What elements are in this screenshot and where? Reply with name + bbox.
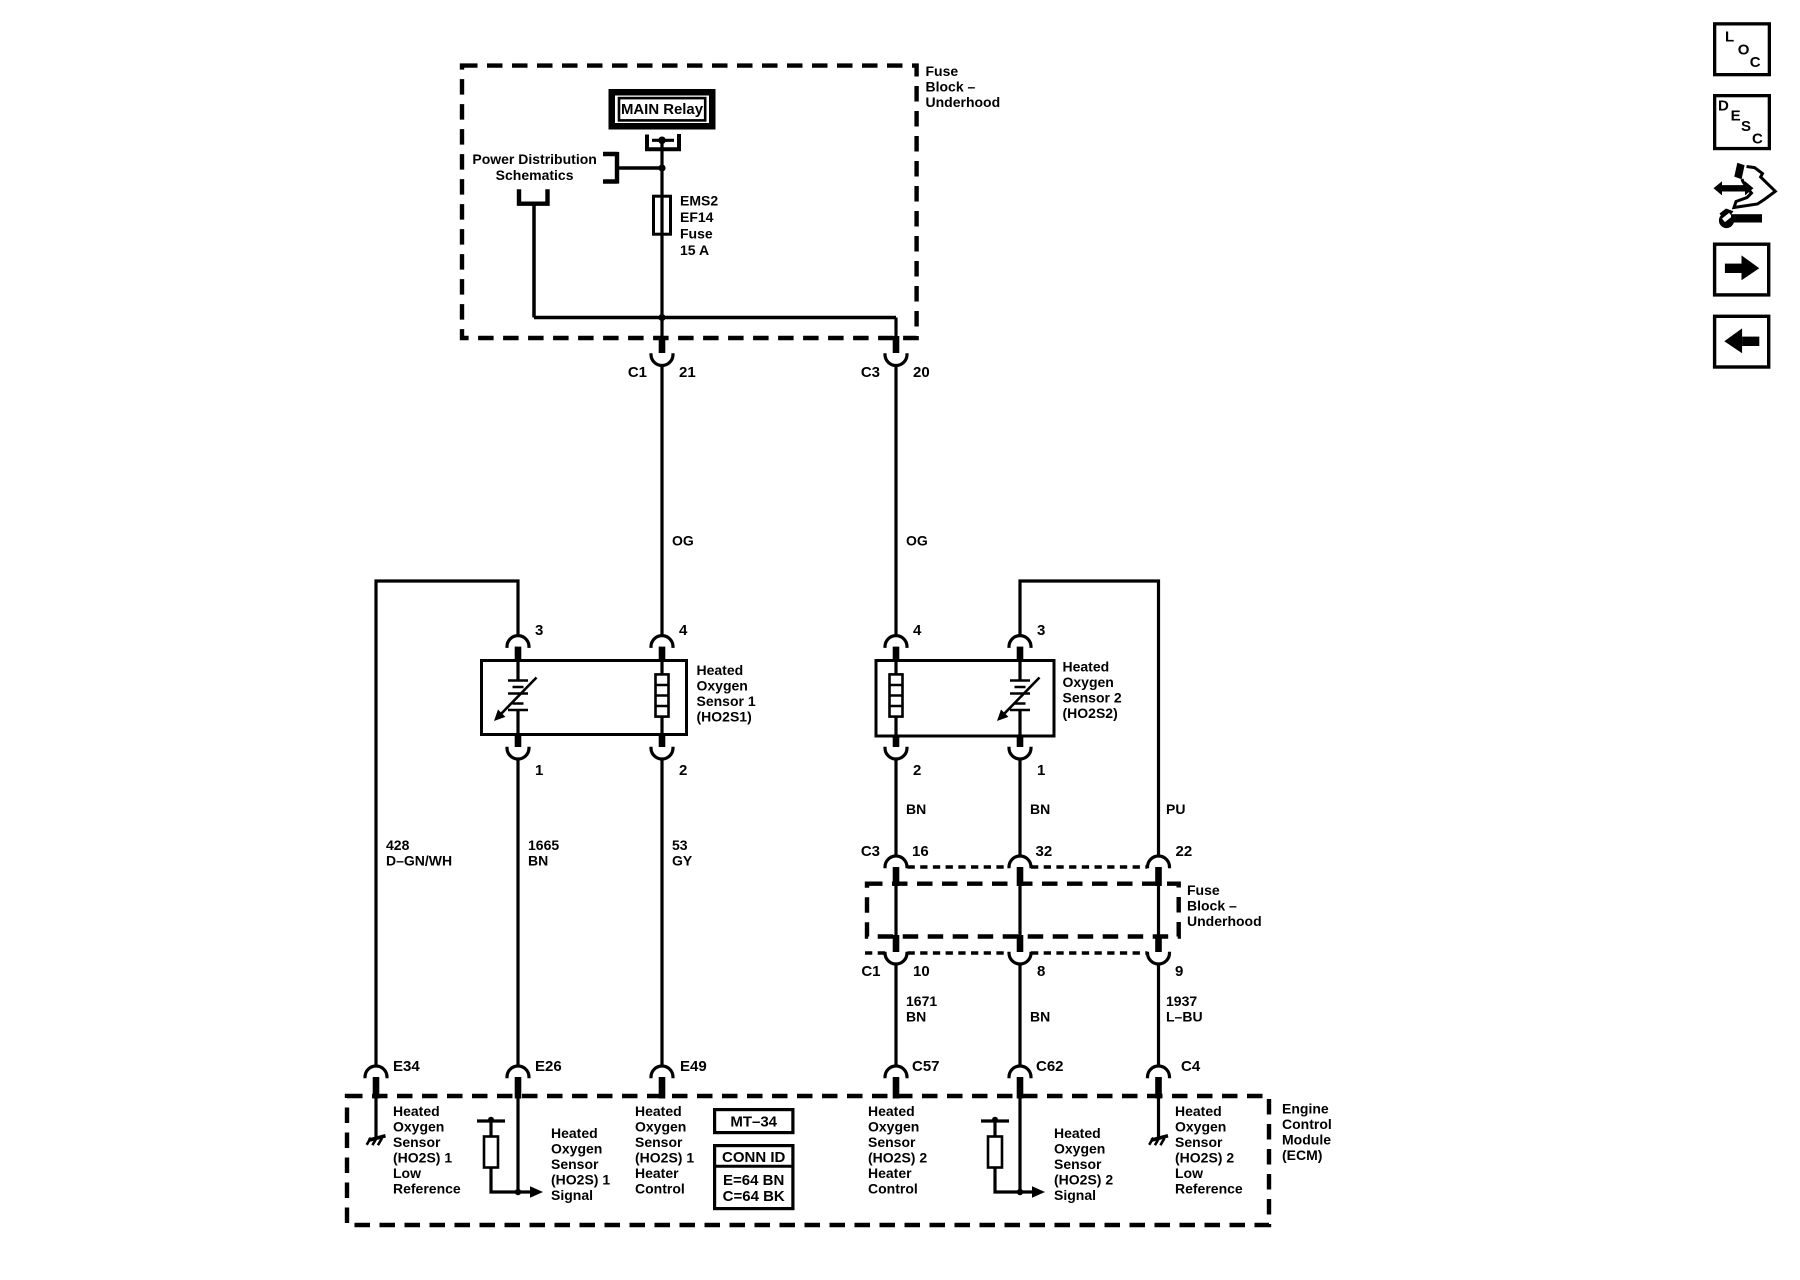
wire: 16 to 10 through fuse block [894,886,897,936]
svg-text:2: 2 [913,762,921,779]
wire: 32 to 8 through fuse block [1018,886,1021,936]
component box: Heated Oxygen Sensor 2 [876,661,1054,737]
wire: bus corner down to C3 20 [894,318,897,337]
svg-text:Sensor: Sensor [635,1134,683,1150]
svg-text:Fuse: Fuse [1187,882,1220,898]
icon: DESC box [1715,96,1770,149]
wire: HO2S2 heater control down [894,759,897,857]
svg-text:C1: C1 [861,963,880,980]
svg-text:Schematics: Schematics [496,167,574,183]
svg-text:22: 22 [1176,843,1193,860]
svg-text:BN: BN [906,1009,926,1025]
svg-text:(HO2S1): (HO2S1) [697,708,752,724]
wire: C57 column [894,964,897,1066]
label: circuit 1671 BN [906,993,937,1025]
svg-text:O: O [1738,42,1750,59]
svg-text:E: E [1731,107,1741,124]
svg-text:C3: C3 [861,364,880,381]
svg-text:OG: OG [906,533,928,549]
svg-text:Signal: Signal [1054,1187,1096,1203]
connector ECM pin C4 [1148,1066,1170,1099]
label: Heated Oxygen Sensor (HO2S) 2 Signal [1054,1125,1113,1203]
svg-text:4: 4 [913,622,922,639]
resistor: HO2S2 signal pull-up with arrow [981,1117,1045,1198]
reference box: CONN ID E=64 BN C=64 BK [713,1146,795,1209]
svg-text:PU: PU [1166,801,1185,817]
connector ECM pin C57 [885,1066,907,1099]
label: EMS2 EF14 Fuse 15 A [680,193,718,259]
fuse block underhood (top) dashed box [462,66,917,338]
svg-text:Heated: Heated [697,662,744,678]
svg-text:C: C [1750,54,1761,71]
svg-text:E26: E26 [535,1058,562,1075]
svg-text:Oxygen: Oxygen [551,1141,602,1157]
bracket: PDS right bracket [603,152,662,184]
svg-text:Oxygen: Oxygen [635,1119,686,1135]
wire: E26 signal into ECM [516,1098,519,1192]
component box: Heated Oxygen Sensor 1 [482,661,687,735]
connector row C3: pin 16 [885,856,907,886]
label: Heated Oxygen Sensor (HO2S) 1 Low Reference [393,1103,461,1197]
svg-text:OG: OG [672,533,694,549]
connector: HO2S2 pin 2 [885,735,907,760]
wire: HO2S1 signal to E26 [516,759,519,1066]
svg-text:Module: Module [1282,1132,1331,1148]
svg-text:EF14: EF14 [680,209,714,225]
svg-text:(HO2S) 1: (HO2S) 1 [393,1150,452,1166]
label: Heated Oxygen Sensor 2 (HO2S2) [1063,659,1122,721]
connector row C3: pin 22 [1148,856,1170,886]
wire: C4 to ground [1157,1098,1160,1137]
wire: C62 column [1018,964,1021,1066]
svg-text:3: 3 [1037,622,1045,639]
svg-text:Oxygen: Oxygen [393,1119,444,1135]
label: Power Distribution Schematics [472,151,596,183]
label: Fuse Block - Underhood (top) [926,63,1001,110]
svg-text:1671: 1671 [906,993,937,1009]
svg-text:C4: C4 [1181,1058,1201,1075]
icon: forward arrow box [1715,244,1769,295]
svg-text:MAIN Relay: MAIN Relay [621,101,704,118]
HO2S2 heater element symbol [890,661,903,737]
engine control module (ECM) dashed box [347,1096,1269,1225]
connector ECM pin E49 [651,1066,673,1099]
svg-text:Block –: Block – [1187,898,1237,914]
svg-text:Oxygen: Oxygen [1054,1141,1105,1157]
svg-text:C1: C1 [628,364,647,381]
label: Heated Oxygen Sensor (HO2S) 2 Heater Control [868,1103,927,1197]
bracket: PDS lower bracket [517,189,550,204]
label: Fuse Block - Underhood (middle) [1187,882,1262,929]
svg-text:(HO2S) 2: (HO2S) 2 [1054,1172,1113,1188]
svg-text:Reference: Reference [393,1181,461,1197]
label: Heated Oxygen Sensor (HO2S) 2 Low Reference [1175,1103,1243,1197]
svg-text:(HO2S) 2: (HO2S) 2 [868,1150,927,1166]
reference box: MT-34 [715,1110,793,1133]
svg-text:53: 53 [672,837,688,853]
HO2S1 heater element symbol [656,661,669,735]
svg-text:1: 1 [535,762,543,779]
svg-text:Heated: Heated [393,1103,440,1119]
wire: HO2S2 signal down [1018,759,1021,857]
svg-text:Heated: Heated [1175,1103,1222,1119]
MAIN relay contact pins symbol [645,134,681,149]
connector: HO2S1 pin 1 [507,733,529,759]
connector C3 pin 20 [885,336,907,366]
svg-text:GY: GY [672,853,693,869]
connector row C1: pin 9 [1148,935,1170,964]
svg-text:Oxygen: Oxygen [697,678,748,694]
wire: HO2S1 pin 3 jog to E34 column [376,581,518,1066]
svg-text:Underhood: Underhood [1187,913,1262,929]
wire: HO2S1 heater control to E49 [660,759,663,1066]
svg-text:Heater: Heater [868,1165,912,1181]
svg-text:1: 1 [1037,762,1045,779]
svg-text:(HO2S) 1: (HO2S) 1 [551,1172,610,1188]
svg-text:E34: E34 [393,1058,420,1075]
svg-text:L: L [1725,29,1734,46]
label: circuit 1937 L-BU [1166,993,1203,1025]
svg-text:Control: Control [635,1181,685,1197]
connector row C1: pin 8 [1009,935,1031,964]
svg-text:1665: 1665 [528,837,559,853]
svg-text:E49: E49 [680,1058,707,1075]
svg-text:8: 8 [1037,963,1045,980]
HO2S1 sensing element symbol [494,661,537,735]
svg-text:(HO2S2): (HO2S2) [1063,705,1118,721]
svg-text:15 A: 15 A [680,242,709,258]
svg-text:Sensor: Sensor [868,1134,916,1150]
svg-text:(HO2S) 1: (HO2S) 1 [635,1150,694,1166]
connector ECM pin E34 [365,1066,387,1099]
svg-text:Sensor 2: Sensor 2 [1063,689,1122,705]
svg-text:Oxygen: Oxygen [1175,1119,1226,1135]
svg-text:32: 32 [1036,843,1053,860]
svg-text:1937: 1937 [1166,993,1197,1009]
svg-text:C: C [1752,130,1763,147]
icon: LOC box [1715,24,1770,75]
svg-text:Heated: Heated [551,1125,598,1141]
svg-text:Heated: Heated [1063,659,1110,675]
svg-text:D–GN/WH: D–GN/WH [386,853,452,869]
fuse block underhood (middle) dashed box [867,884,1179,937]
svg-text:Heated: Heated [868,1103,915,1119]
wire: E34 to ground [374,1098,377,1137]
svg-text:Sensor: Sensor [551,1156,599,1172]
svg-text:Low: Low [393,1165,421,1181]
label: circuit 428 D-GN/WH [386,837,452,869]
icon: repair instructions (arrows + wrench) [1714,163,1776,228]
svg-text:Control: Control [1282,1116,1332,1132]
svg-text:BN: BN [1030,1009,1050,1025]
svg-text:10: 10 [913,963,930,980]
svg-text:20: 20 [913,364,930,381]
label: circuit 1665 BN [528,837,559,869]
svg-text:2: 2 [679,762,687,779]
svg-text:21: 21 [679,364,696,381]
connector row C3: pin 32 [1009,856,1031,886]
svg-text:E=64 BN: E=64 BN [723,1172,784,1189]
svg-text:Heated: Heated [635,1103,682,1119]
node: bus junction [658,314,665,321]
wire: relay to tap junction [660,140,663,168]
wire: OG to HO2S1 pin 4 [660,366,663,637]
svg-text:Fuse: Fuse [680,226,713,242]
label: Heated Oxygen Sensor 1 (HO2S1) [697,662,756,724]
svg-text:Sensor: Sensor [1175,1134,1223,1150]
svg-text:428: 428 [386,837,410,853]
svg-text:(HO2S) 2: (HO2S) 2 [1175,1150,1234,1166]
connector: HO2S2 pin 4 [885,636,907,662]
connector row C1: pin 10 [885,935,907,964]
resistor: HO2S1 signal pull-up with arrow [477,1117,543,1198]
svg-text:CONN ID: CONN ID [722,1149,786,1166]
connector ECM pin E26 [507,1066,529,1099]
svg-text:Fuse: Fuse [926,63,959,79]
svg-text:Low: Low [1175,1165,1203,1181]
connector: HO2S1 pin 3 [507,636,529,662]
connector: HO2S2 pin 3 [1009,636,1031,662]
svg-text:Signal: Signal [551,1187,593,1203]
label: Engine Control Module (ECM) [1282,1101,1332,1164]
svg-text:EMS2: EMS2 [680,193,718,209]
connector face line C1 [865,951,1147,954]
icon: back arrow box [1715,316,1769,367]
connector: HO2S2 pin 1 [1009,735,1031,760]
svg-text:Control: Control [868,1181,918,1197]
svg-text:16: 16 [912,843,929,860]
svg-text:4: 4 [679,622,688,639]
label: Heated Oxygen Sensor (HO2S) 1 Heater Control [635,1103,694,1197]
svg-text:C3: C3 [861,843,880,860]
svg-text:Sensor: Sensor [393,1134,441,1150]
wire: C62 signal into ECM [1018,1098,1021,1192]
svg-text:Heater: Heater [635,1165,679,1181]
wire: PDS branch down [532,205,536,318]
svg-text:Sensor 1: Sensor 1 [697,693,756,709]
connector face line C3 [908,865,1148,868]
wire: HO2S2 pin 3 jog to PU column [1020,581,1159,857]
ground: HO2S1 low reference [367,1136,386,1145]
svg-text:Sensor: Sensor [1054,1156,1102,1172]
svg-text:BN: BN [1030,801,1050,817]
connector ECM pin C62 [1009,1066,1031,1099]
wire: tap junction through fuse to bus [660,168,663,318]
HO2S2 sensing element symbol [997,661,1040,737]
label: Heated Oxygen Sensor (HO2S) 1 Signal [551,1125,610,1203]
svg-text:S: S [1741,118,1751,135]
wire: C4 column [1157,964,1160,1066]
svg-text:Block –: Block – [926,79,976,95]
svg-text:Reference: Reference [1175,1181,1243,1197]
svg-text:BN: BN [528,853,548,869]
wire: bus horizontal [534,316,896,320]
svg-text:L–BU: L–BU [1166,1009,1203,1025]
label: circuit 53 GY [672,837,693,869]
svg-text:MT–34: MT–34 [730,1114,777,1131]
svg-text:9: 9 [1175,963,1183,980]
ground: HO2S2 low reference [1149,1136,1168,1145]
svg-text:C57: C57 [912,1058,940,1075]
wire: OG to HO2S2 pin 4 [894,366,897,637]
connector C1 pin 21 [651,336,673,366]
svg-text:Oxygen: Oxygen [1063,674,1114,690]
connector: HO2S1 pin 2 [651,733,673,759]
wire: 22 to 9 through fuse block [1157,886,1160,936]
node: tap junction [658,164,665,171]
svg-text:(ECM): (ECM) [1282,1147,1322,1163]
svg-text:C=64 BK: C=64 BK [723,1188,785,1205]
svg-text:Power Distribution: Power Distribution [472,151,596,167]
svg-text:Heated: Heated [1054,1125,1101,1141]
svg-text:Engine: Engine [1282,1101,1329,1117]
svg-text:Underhood: Underhood [926,94,1001,110]
svg-text:BN: BN [906,801,926,817]
fuse EMS2 EF14 [654,196,671,234]
svg-text:D: D [1718,98,1729,115]
svg-text:3: 3 [535,622,543,639]
connector: HO2S1 pin 4 [651,636,673,662]
svg-text:C62: C62 [1036,1058,1064,1075]
relay: MAIN Relay box [612,92,713,126]
svg-text:Oxygen: Oxygen [868,1119,919,1135]
